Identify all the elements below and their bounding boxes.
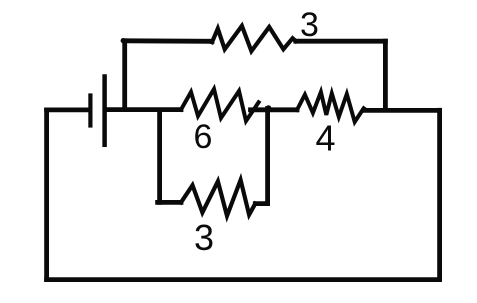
wire: lower branch left stub xyxy=(158,200,181,205)
node: top-left corner dot xyxy=(121,38,126,43)
wire: bottom outer xyxy=(47,277,440,282)
node: junction between R2/R4 and lower branch riser xyxy=(266,105,272,111)
wire: right outer vertical xyxy=(437,110,442,279)
svg-text:4: 4 xyxy=(315,118,335,159)
battery V1 negative plate xyxy=(88,96,92,126)
wire: top branch right segment xyxy=(296,39,386,44)
svg-text:3: 3 xyxy=(194,217,214,258)
resistor R4 4-ohm zigzag xyxy=(297,92,364,122)
wire: middle rail right segment to right rail xyxy=(364,108,440,113)
resistor R3 3-ohm (bottom) zigzag xyxy=(181,180,255,216)
wire: between R2 and R4 on middle rail xyxy=(251,107,298,112)
wire: riser on right of parallel pair xyxy=(265,109,270,204)
resistor R2 6-ohm zigzag xyxy=(181,89,259,121)
wire: battery to node A xyxy=(107,107,182,112)
wire: top branch left segment xyxy=(125,38,212,43)
svg-text:6: 6 xyxy=(194,118,213,156)
svg-text:3: 3 xyxy=(300,6,319,44)
wire: drop from top branch to middle rail xyxy=(383,41,388,110)
battery V1 positive plate xyxy=(102,77,107,145)
wire: middle left rail to battery xyxy=(47,108,89,113)
wire: drop on left of parallel pair xyxy=(157,110,162,202)
wire: lower branch right stub xyxy=(255,201,267,206)
wire: riser from node A to top branch xyxy=(122,41,127,110)
resistor R1 3-ohm (top) zigzag xyxy=(212,26,296,51)
wire: left outer vertical xyxy=(44,110,49,280)
